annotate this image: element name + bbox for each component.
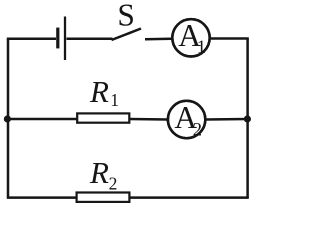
svg-text:1: 1 [110,90,119,110]
svg-text:2: 2 [109,174,118,194]
svg-text:R: R [89,155,109,190]
svg-text:R: R [89,74,109,109]
svg-text:S: S [117,0,135,33]
